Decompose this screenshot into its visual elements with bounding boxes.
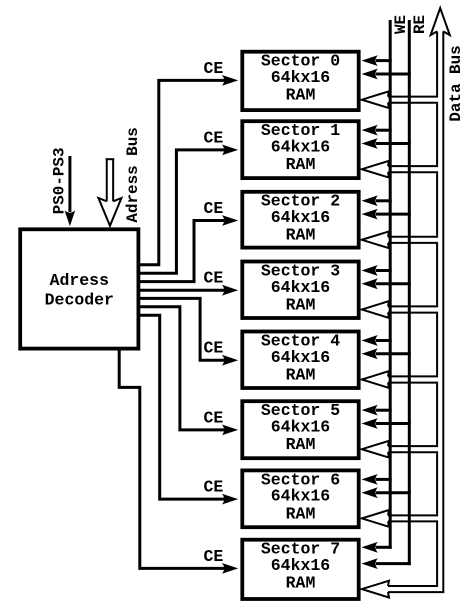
svg-text:RAM: RAM	[286, 435, 316, 454]
svg-text:64kx16: 64kx16	[271, 208, 330, 227]
hollow data connection Sector 4	[362, 371, 438, 388]
svg-text:CE: CE	[203, 339, 223, 358]
svg-text:64kx16: 64kx16	[271, 487, 330, 506]
block Sector 5 64kx16 RAM	[242, 401, 358, 458]
block Sector 6 64kx16 RAM	[242, 470, 358, 527]
arrow RE to Sector 4	[362, 348, 411, 359]
svg-text:CE: CE	[203, 547, 223, 566]
arrow WE to Sector 0	[362, 55, 392, 66]
wire CE to Sector 3	[138, 285, 238, 296]
bus Data Bus left line with junction gaps	[436, 31, 438, 585]
wire CE to Sector 5	[138, 307, 238, 436]
svg-text:RAM: RAM	[286, 86, 316, 105]
block Sector 0 64kx16 RAM	[242, 52, 358, 111]
svg-text:RAM: RAM	[286, 574, 316, 593]
svg-text:CE: CE	[203, 128, 223, 147]
svg-text:Adress: Adress	[50, 271, 109, 290]
hollow data connection Sector 3	[362, 301, 438, 318]
arrow WE to Sector 2	[362, 195, 392, 206]
hollow data connection Sector 1	[362, 161, 438, 178]
block Sector 4 64kx16 RAM	[242, 331, 358, 388]
arrow WE to Sector 4	[362, 335, 392, 346]
arrow WE to Sector 6	[362, 474, 392, 485]
svg-text:64kx16: 64kx16	[271, 278, 330, 297]
svg-text:RE: RE	[411, 15, 429, 34]
arrow RE to Sector 1	[362, 138, 411, 149]
svg-text:CE: CE	[203, 269, 223, 288]
arrow RE to Sector 2	[362, 209, 411, 220]
svg-text:CE: CE	[203, 59, 223, 78]
arrow WE to Sector 3	[362, 265, 392, 276]
bus Data Bus hollow up arrow head	[431, 8, 450, 35]
svg-text:RAM: RAM	[286, 226, 316, 245]
block Sector 3 64kx16 RAM	[242, 261, 358, 318]
arrow WE to Sector 1	[362, 125, 392, 136]
svg-text:WE: WE	[392, 15, 410, 34]
wire CE to Sector 2	[138, 215, 238, 282]
arrow RE to Sector 6	[362, 487, 411, 498]
bus Data Bus right line	[442, 31, 444, 592]
svg-text:64kx16: 64kx16	[271, 138, 330, 157]
wire CE to Sector 1	[138, 145, 238, 274]
block Sector 7 64kx16 RAM	[242, 540, 358, 599]
hollow data connection Sector 6	[362, 510, 438, 527]
arrow RE to Sector 5	[362, 418, 411, 429]
bus Adress Bus hollow down arrow	[98, 158, 121, 225]
svg-text:64kx16: 64kx16	[271, 348, 330, 367]
svg-text:Data Bus: Data Bus	[447, 45, 465, 121]
hollow data connection Sector 2	[362, 231, 438, 248]
wire RE vertical line	[408, 20, 411, 565]
svg-text:RAM: RAM	[286, 155, 316, 174]
svg-text:RAM: RAM	[286, 295, 316, 314]
svg-text:CE: CE	[203, 478, 223, 497]
svg-text:PS0-PS3: PS0-PS3	[50, 148, 68, 215]
svg-text:CE: CE	[203, 408, 223, 427]
block Sector 2 64kx16 RAM	[242, 192, 358, 248]
wire PS0-PS3 input arrow	[65, 156, 76, 226]
arrow RE to Sector 7	[362, 558, 411, 569]
svg-text:64kx16: 64kx16	[271, 418, 330, 437]
svg-text:RAM: RAM	[286, 365, 316, 384]
wire CE to Sector 4	[138, 298, 238, 365]
arrow WE to Sector 7	[362, 542, 392, 553]
svg-text:CE: CE	[203, 199, 223, 218]
arrow RE to Sector 3	[362, 278, 411, 289]
hollow data connection Sector 5	[362, 441, 438, 458]
svg-text:64kx16: 64kx16	[271, 556, 330, 575]
address decoder block	[20, 229, 138, 348]
wire CE to Sector 0	[138, 75, 238, 265]
svg-text:Decoder: Decoder	[45, 290, 114, 309]
wire CE to Sector 7	[119, 348, 238, 574]
svg-text:Adress Bus: Adress Bus	[124, 127, 142, 222]
block Sector 1 64kx16 RAM	[242, 121, 358, 178]
arrow RE to Sector 0	[362, 69, 411, 80]
hollow data connection Sector 7	[362, 581, 445, 598]
svg-text:RAM: RAM	[286, 504, 316, 523]
wire CE to Sector 6	[138, 315, 238, 504]
arrow WE to Sector 5	[362, 405, 392, 416]
hollow data connection Sector 0	[362, 91, 438, 108]
wire WE vertical line	[389, 20, 392, 549]
svg-text:64kx16: 64kx16	[271, 68, 330, 87]
